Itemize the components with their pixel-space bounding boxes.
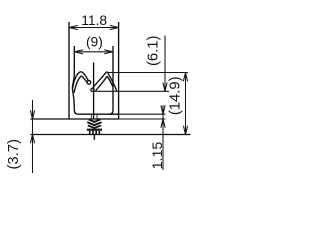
svg-text:1.15: 1.15 <box>150 142 166 170</box>
arrowhead 11.8 right <box>110 25 119 29</box>
extension line y=72.5 from right arm apex <box>107 72 188 74</box>
dimension line (14.9) vertical <box>185 73 187 135</box>
fastener shaft between floor and panel <box>90 114 93 119</box>
arrowhead (9) left <box>74 50 83 54</box>
arrowhead (14.9) top up <box>183 73 187 82</box>
svg-text:(3.7): (3.7) <box>6 139 22 169</box>
wire: bottom long line y=134.5 <box>31 134 191 136</box>
spring arm right base foot <box>91 88 94 91</box>
arrowhead (14.9) bottom down <box>183 126 187 135</box>
arrowhead (3.7) up to bottom line <box>30 135 34 144</box>
arrowhead (6.1) bottom down <box>163 83 167 92</box>
wire: panel top / profile bottom line y=119 <box>31 118 119 120</box>
dimension line (9) <box>74 51 113 53</box>
wire: left inner wall / extension line x=74.3 (slight bow at arm root) <box>72 46 78 114</box>
svg-text:11.8: 11.8 <box>81 13 107 28</box>
fastener legs <box>89 131 91 135</box>
dimension line (6.1) vertical <box>164 36 166 92</box>
wire: right outer wall / extension line x=118.6 <box>118 22 120 119</box>
fastener flange bar <box>87 129 102 131</box>
dimension line (3.7) vertical <box>32 100 34 173</box>
spring arm left inner edge <box>74 76 87 93</box>
dimension line 11.8 <box>69 27 119 29</box>
wire: right inner wall / extension line x=113 <box>109 46 113 114</box>
svg-text:(14.9): (14.9) <box>167 76 183 115</box>
wire: left outer wall / extension line x=69 <box>68 22 70 119</box>
wire: center pin vertical <box>93 63 95 120</box>
dimension line 1.15 vertical <box>162 105 164 170</box>
spring arm right lower edge <box>96 76 113 90</box>
svg-text:(9): (9) <box>86 34 103 49</box>
arrowhead 11.8 left <box>69 25 78 29</box>
spring arm left hook tip <box>87 81 91 85</box>
extension of bottom line to 1.15 dim <box>119 118 166 120</box>
arrowhead 1.15 down to floor line <box>161 105 165 114</box>
spring arm left outer edge <box>73 72 89 89</box>
extension of cavity floor line to 1.15 dim <box>119 113 166 115</box>
svg-text:(6.1): (6.1) <box>145 36 161 66</box>
arrowhead (3.7) down to panel top <box>30 110 34 119</box>
arrowhead 1.15 up to panel line <box>161 119 165 128</box>
arrowhead (9) right <box>104 50 113 54</box>
spring arm right upper edge <box>93 72 117 91</box>
extension line y=91.3 block top <box>94 90 169 92</box>
fastener fir-tree barbs (solid) <box>87 114 102 140</box>
fastener stem below panel <box>94 135 96 140</box>
wire: cavity floor line y=114.2 <box>78 113 118 115</box>
